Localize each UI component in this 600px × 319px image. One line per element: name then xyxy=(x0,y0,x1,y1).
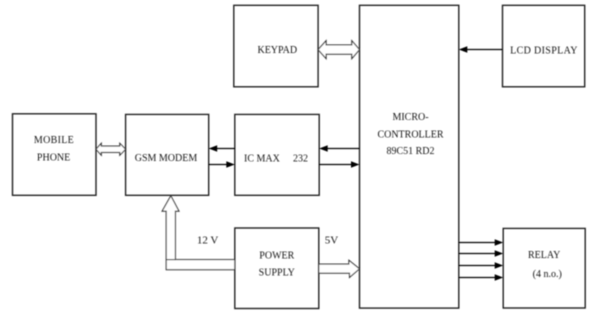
double arrow KEYPAD - MICRO-CONTROLLER xyxy=(318,41,359,59)
arrow IC MAX 232 to GSM MODEM xyxy=(209,145,235,152)
arrow LCD DISPLAY to MICRO-CONTROLLER xyxy=(459,46,503,53)
arrow 3 MICRO-CONTROLLER to RELAY xyxy=(459,262,503,269)
block MICRO-CONTROLLER 89C51 RD2 xyxy=(360,5,459,308)
svg-text:5V: 5V xyxy=(325,235,339,247)
svg-text:IC MAX: IC MAX xyxy=(244,154,281,165)
block LCD DISPLAY xyxy=(503,5,585,87)
arrow 2 MICRO-CONTROLLER to RELAY xyxy=(459,250,503,257)
block MOBILE PHONE xyxy=(13,114,97,196)
double arrow MOBILE PHONE - GSM MODEM xyxy=(96,143,126,155)
svg-text:RELAY: RELAY xyxy=(528,250,560,261)
svg-text:CONTROLLER: CONTROLLER xyxy=(377,129,443,140)
block RELAY (4 n.o.) xyxy=(503,228,585,308)
svg-text:MICRO-: MICRO- xyxy=(392,112,428,123)
svg-text:PHONE: PHONE xyxy=(37,153,70,164)
svg-text:GSM MODEM: GSM MODEM xyxy=(135,153,198,164)
arrow GSM MODEM to IC MAX 232 xyxy=(209,161,235,168)
arrow MICRO-CONTROLLER to IC MAX 232 xyxy=(319,145,359,152)
block GSM MODEM xyxy=(126,114,209,195)
svg-text:(4 n.o.): (4 n.o.) xyxy=(533,269,562,280)
block POWER SUPPLY xyxy=(235,228,319,309)
block KEYPAD xyxy=(234,5,318,87)
arrow IC MAX 232 to MICRO-CONTROLLER xyxy=(319,161,359,168)
arrow 4 MICRO-CONTROLLER to RELAY xyxy=(459,274,503,281)
svg-text:POWER: POWER xyxy=(259,250,294,261)
svg-text:KEYPAD: KEYPAD xyxy=(257,45,297,56)
block IC MAX 232 xyxy=(235,114,319,195)
arrow 1 MICRO-CONTROLLER to RELAY xyxy=(459,239,503,246)
svg-text:SUPPLY: SUPPLY xyxy=(259,267,295,278)
svg-text:12 V: 12 V xyxy=(197,235,219,247)
svg-text:232: 232 xyxy=(293,154,308,165)
svg-text:LCD DISPLAY: LCD DISPLAY xyxy=(510,46,578,57)
hollow bent arrow POWER SUPPLY to GSM MODEM (12 V) xyxy=(162,196,235,270)
hollow arrow POWER SUPPLY to MICRO-CONTROLLER (5V) xyxy=(319,260,360,277)
svg-text:89C51 RD2: 89C51 RD2 xyxy=(386,146,434,157)
svg-text:MOBILE: MOBILE xyxy=(34,135,74,146)
